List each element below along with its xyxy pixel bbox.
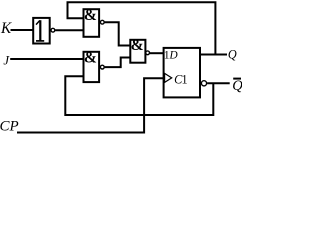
wire <box>105 22 131 45</box>
wire <box>105 58 131 68</box>
wire <box>55 29 83 31</box>
nand G4 box <box>130 40 145 63</box>
wire <box>10 58 83 60</box>
nand G3 output bubble <box>100 65 104 69</box>
nand G2 box <box>84 9 100 37</box>
svg-text:Q: Q <box>228 48 237 62</box>
flip-flop U1 inverted output bubble <box>201 81 206 86</box>
node Qbar overbar <box>233 78 241 80</box>
svg-text:&: & <box>84 7 97 24</box>
nand G2 output bubble <box>100 20 104 24</box>
nand G3 box <box>84 52 100 82</box>
svg-text:&: & <box>84 50 97 67</box>
wire <box>11 29 34 31</box>
wire (Q output) <box>200 54 227 56</box>
wire (Qbar output) <box>207 82 230 84</box>
svg-text:Q: Q <box>232 78 242 94</box>
inverter G1 label 1 <box>36 20 44 41</box>
wire (Qbar feedback: bottom) <box>65 76 213 115</box>
svg-text:K: K <box>0 20 12 37</box>
nand G4 output bubble <box>146 51 150 55</box>
svg-text:J: J <box>3 54 10 68</box>
flip-flop U1 clock triangle <box>165 73 172 82</box>
svg-text:CP: CP <box>0 119 19 135</box>
wire (D input) <box>150 52 164 54</box>
inverter G1 box <box>33 18 50 44</box>
wire (CP to C1) <box>17 78 164 132</box>
svg-text:1D: 1D <box>164 49 178 61</box>
svg-text:C1: C1 <box>174 72 187 86</box>
inverter G1 output bubble <box>51 28 55 32</box>
svg-text:&: & <box>131 37 144 54</box>
flip-flop U1 box <box>164 48 200 98</box>
wire (Q feedback: top) <box>68 2 216 54</box>
